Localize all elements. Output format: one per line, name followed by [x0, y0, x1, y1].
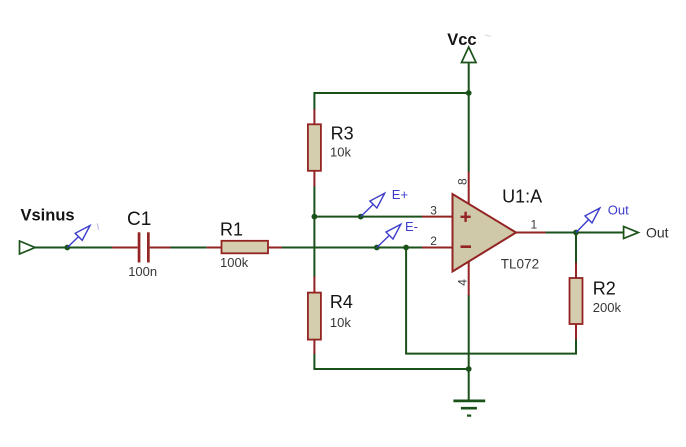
op-amp U1: [422, 172, 546, 296]
power symbol Vcc: [462, 47, 477, 63]
artifact mark near Vcc: [485, 35, 491, 36]
wire R3-R4 column: [313, 186, 315, 278]
svg-text:Out: Out: [608, 202, 629, 217]
junction ground node: [466, 366, 472, 372]
junction input probe: [64, 245, 70, 251]
svg-text:R1: R1: [220, 219, 243, 239]
svg-text:E+: E+: [392, 187, 408, 202]
svg-text:Vsinus: Vsinus: [21, 207, 75, 225]
wire input segment: [34, 247, 112, 249]
svg-text:R4: R4: [330, 292, 353, 312]
wire R1 to pin2: [282, 247, 422, 249]
wire R4 to ground bus: [314, 353, 468, 369]
svg-text:1: 1: [531, 218, 538, 232]
wire feedback loop: [406, 248, 576, 354]
input terminal: [20, 241, 36, 254]
wire top bus to Vcc: [314, 93, 468, 110]
junction E+ probe: [358, 214, 364, 220]
svg-text:E-: E-: [405, 219, 418, 234]
wire node to pin3: [314, 216, 422, 218]
svg-text:Vcc: Vcc: [447, 31, 476, 49]
probe E+: [361, 193, 385, 216]
svg-text:100n: 100n: [128, 264, 157, 279]
artifact mark: [97, 224, 98, 231]
svg-text:10k: 10k: [330, 315, 351, 330]
wire R2 top: [575, 233, 577, 264]
svg-text:100k: 100k: [220, 255, 249, 270]
svg-text:C1: C1: [127, 209, 151, 230]
junction output node: [573, 230, 579, 236]
svg-text:R2: R2: [593, 278, 616, 298]
resistor R1: [207, 241, 282, 254]
probe Vsinus: [67, 226, 90, 248]
junction R3-R4 node: [312, 214, 318, 220]
probe E-: [377, 224, 401, 247]
resistor R3: [308, 109, 321, 186]
wire pin4 to ground: [468, 295, 470, 401]
ground: [453, 401, 485, 416]
resistor R4: [308, 277, 321, 355]
svg-text:2: 2: [430, 234, 437, 248]
wire C1 to R1: [171, 247, 207, 249]
junction Vcc node: [466, 90, 472, 96]
output terminal: [624, 227, 639, 239]
svg-text:200k: 200k: [593, 300, 622, 315]
junction feedback node: [403, 245, 409, 251]
wire output: [546, 232, 625, 234]
capacitor C1: [112, 232, 171, 262]
probe Out: [576, 208, 600, 232]
svg-text:4: 4: [456, 279, 470, 286]
svg-text:10k: 10k: [330, 145, 351, 160]
svg-text:8: 8: [456, 178, 470, 185]
svg-text:R3: R3: [331, 124, 354, 144]
wire Vcc column: [468, 62, 470, 172]
svg-text:U1:A: U1:A: [502, 186, 542, 206]
resistor R2: [570, 263, 583, 340]
svg-text:Out: Out: [646, 225, 669, 241]
svg-text:3: 3: [430, 204, 437, 218]
svg-text:TL072: TL072: [501, 257, 539, 272]
junction E- probe: [374, 245, 380, 251]
